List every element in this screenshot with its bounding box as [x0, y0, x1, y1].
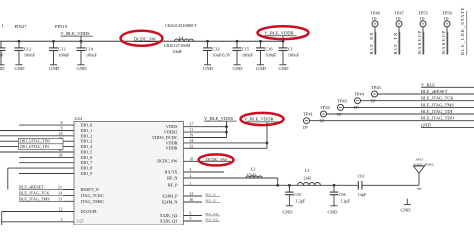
- svg-text:C11: C11: [0, 46, 1, 51]
- svg-text:TP44: TP44: [354, 92, 365, 97]
- svg-text:TP42: TP42: [320, 105, 330, 110]
- svg-text:TP56: TP56: [442, 10, 453, 15]
- svg-text:DCOUPL: DCOUPL: [81, 209, 98, 214]
- svg-text:27: 27: [190, 123, 194, 127]
- svg-text:RF_P: RF_P: [168, 183, 178, 188]
- svg-text:100nF: 100nF: [242, 53, 254, 58]
- svg-text:GND: GND: [233, 66, 244, 71]
- svg-text:CKS2125100M-T: CKS2125100M-T: [165, 23, 197, 28]
- svg-text:U24: U24: [75, 116, 83, 121]
- svg-text:DCDC_SW: DCDC_SW: [134, 36, 157, 41]
- svg-text:BLE_RX: BLE_RX: [369, 31, 374, 54]
- svg-text:GND: GND: [256, 66, 267, 71]
- svg-text:RX/TX: RX/TX: [165, 169, 178, 174]
- svg-text:100nF: 100nF: [86, 53, 98, 58]
- svg-text:GND: GND: [77, 66, 88, 71]
- svg-text:13: 13: [58, 196, 62, 201]
- svg-text:21: 21: [58, 185, 62, 190]
- svg-text:DIO_6: DIO_6: [81, 155, 93, 160]
- svg-text:TP45: TP45: [371, 85, 382, 90]
- svg-text:V_BLE_VDDS: V_BLE_VDDS: [61, 31, 91, 36]
- svg-text:DIO_5: DIO_5: [81, 150, 93, 155]
- svg-text:PIN19: PIN19: [55, 24, 68, 29]
- svg-text:ANT3: ANT3: [415, 157, 423, 161]
- svg-text:BLE_TX: BLE_TX: [393, 32, 398, 55]
- svg-text:TP: TP: [302, 125, 308, 130]
- svg-text:V_BLE_VDDR: V_BLE_VDDR: [264, 31, 295, 36]
- svg-text:GND: GND: [283, 209, 294, 214]
- svg-text:8: 8: [61, 121, 63, 125]
- svg-text:WAKEUP: WAKEUP: [417, 30, 422, 55]
- svg-text:C56: C56: [339, 192, 346, 197]
- svg-text:L3: L3: [305, 168, 310, 173]
- svg-text:BLE_aRESET: BLE_aRESET: [19, 185, 44, 190]
- svg-text:BLE_JTAG_TDI: BLE_JTAG_TDI: [421, 109, 453, 114]
- svg-text:GND: GND: [203, 66, 214, 71]
- svg-text:V_BLE_VDDS: V_BLE_VDDS: [204, 116, 234, 121]
- svg-text:C55: C55: [294, 192, 301, 197]
- svg-text:100nF: 100nF: [288, 53, 300, 58]
- svg-text:WAKEUP: WAKEUP: [441, 30, 446, 55]
- svg-text:X24M_P: X24M_P: [162, 193, 178, 198]
- svg-text:DIO_2: DIO_2: [81, 133, 93, 138]
- svg-text:32: 32: [190, 144, 194, 148]
- svg-text:VDDS_DCDC: VDDS_DCDC: [152, 135, 178, 140]
- svg-text:100nF: 100nF: [0, 53, 4, 58]
- svg-text:TP47: TP47: [394, 10, 405, 15]
- svg-text:12pF: 12pF: [358, 192, 367, 197]
- svg-text:PIN27: PIN27: [15, 24, 28, 29]
- svg-text:GND: GND: [15, 66, 26, 71]
- svg-text:TP46: TP46: [370, 10, 381, 15]
- svg-text:BLE_aRESET: BLE_aRESET: [421, 89, 448, 94]
- svg-text:18: 18: [190, 157, 194, 161]
- svg-text:BLE_X2: BLE_X2: [206, 198, 217, 202]
- svg-text:TP55: TP55: [418, 10, 429, 15]
- svg-text:1.2pF: 1.2pF: [296, 198, 306, 203]
- svg-text:GND: GND: [401, 208, 412, 213]
- svg-text:BLE_JTAG_TCK: BLE_JTAG_TCK: [421, 96, 454, 101]
- svg-text:BLE_JTAG_TMS: BLE_JTAG_TMS: [19, 196, 50, 201]
- svg-text:VDDS: VDDS: [166, 124, 178, 129]
- svg-text:BLE_X1: BLE_X1: [206, 192, 217, 196]
- svg-text:10uH: 10uH: [172, 49, 181, 54]
- svg-text:C14: C14: [86, 46, 94, 51]
- svg-text:3: 3: [61, 218, 63, 222]
- svg-text:2: 2: [190, 174, 192, 178]
- svg-text:11: 11: [190, 128, 194, 132]
- svg-text:DIO_4/JTAG_TDI: DIO_4/JTAG_TDI: [20, 145, 50, 149]
- svg-text:X24M_N: X24M_N: [161, 199, 177, 204]
- svg-text:GND: GND: [0, 66, 5, 71]
- svg-text:L2: L2: [251, 167, 256, 172]
- svg-text:31: 31: [190, 192, 194, 196]
- svg-text:34: 34: [190, 139, 194, 143]
- svg-text:C13: C13: [58, 46, 65, 51]
- svg-text:JTAG_TCKC: JTAG_TCKC: [81, 193, 105, 198]
- svg-text:BLE_JTAG_TDO: BLE_JTAG_TDO: [421, 116, 455, 121]
- svg-text:VDDS2: VDDS2: [164, 130, 178, 135]
- svg-text:BLE_JTAG_TMS: BLE_JTAG_TMS: [421, 102, 454, 107]
- svg-text:V_BLE_VDDR: V_BLE_VDDR: [244, 117, 275, 122]
- svg-text:X32K_Q1: X32K_Q1: [160, 218, 178, 223]
- svg-text:9: 9: [61, 127, 63, 131]
- svg-text:6: 6: [190, 212, 192, 216]
- svg-text:C15: C15: [242, 46, 249, 51]
- svg-text:DIO_9: DIO_9: [81, 171, 93, 176]
- svg-text:DIO_1: DIO_1: [81, 128, 93, 133]
- svg-text:BLE_LQ1: BLE_LQ1: [206, 217, 219, 221]
- svg-text:GND: GND: [328, 209, 339, 214]
- svg-text:C12: C12: [24, 46, 31, 51]
- svg-text:TP43: TP43: [337, 98, 348, 103]
- svg-text:BLE_LNK_STATE: BLE_LNK_STATE: [460, 7, 465, 55]
- svg-text:4: 4: [190, 168, 192, 172]
- svg-text:100nF: 100nF: [265, 53, 277, 58]
- svg-text:TP41: TP41: [303, 112, 313, 117]
- svg-text:VDDR: VDDR: [165, 140, 177, 145]
- svg-text:5: 5: [190, 217, 192, 221]
- svg-text:C16: C16: [265, 46, 273, 51]
- svg-text:26: 26: [59, 153, 63, 157]
- svg-text:12: 12: [59, 208, 63, 212]
- svg-text:DCDC_SW: DCDC_SW: [206, 157, 228, 162]
- svg-text:GND: GND: [49, 66, 60, 71]
- svg-text:DIO_0: DIO_0: [81, 123, 93, 128]
- svg-text:100nF: 100nF: [24, 53, 36, 58]
- svg-text:C61: C61: [358, 174, 365, 179]
- svg-text:GND: GND: [279, 66, 290, 71]
- svg-text:X32K_Q2: X32K_Q2: [160, 213, 178, 218]
- svg-text:U25: U25: [77, 220, 84, 224]
- svg-text:1.2pF: 1.2pF: [340, 198, 350, 203]
- svg-text:C33: C33: [212, 46, 219, 51]
- svg-text:DIO_3/JTAG_TDO: DIO_3/JTAG_TDO: [20, 140, 51, 144]
- svg-text:RF_N: RF_N: [167, 175, 177, 180]
- svg-text:RESET_N: RESET_N: [81, 187, 99, 192]
- svg-text:JTAG_TMSC: JTAG_TMSC: [81, 199, 105, 204]
- svg-text:1: 1: [190, 181, 192, 185]
- svg-text:14: 14: [58, 190, 62, 195]
- svg-text:100nF: 100nF: [58, 53, 70, 58]
- svg-text:DIO_7: DIO_7: [81, 160, 93, 165]
- svg-text:10uF/6.3V: 10uF/6.3V: [212, 53, 231, 58]
- svg-text:DIO_8: DIO_8: [81, 166, 93, 171]
- svg-text:1: 1: [2, 23, 5, 28]
- svg-text:30: 30: [190, 198, 194, 202]
- svg-text:BLE_JTAG_TCK: BLE_JTAG_TCK: [19, 190, 49, 195]
- svg-text:19: 19: [190, 134, 194, 138]
- svg-text:C1: C1: [288, 46, 293, 51]
- svg-text:DCDC_SW: DCDC_SW: [157, 159, 177, 164]
- svg-text:10: 10: [59, 132, 63, 136]
- svg-text:LB2012T100M: LB2012T100M: [164, 43, 191, 48]
- svg-text:DIO_4: DIO_4: [81, 144, 94, 149]
- svg-text:2nH: 2nH: [304, 176, 311, 181]
- svg-text:DIO_3: DIO_3: [81, 139, 93, 144]
- svg-text:VDDR: VDDR: [165, 146, 177, 151]
- svg-text:BLE_LQ2: BLE_LQ2: [206, 212, 219, 216]
- svg-text:GND: GND: [421, 122, 431, 127]
- svg-text:V_BLE: V_BLE: [421, 82, 435, 87]
- svg-text:SU2632_2R540G: SU2632_2R540G: [413, 162, 434, 166]
